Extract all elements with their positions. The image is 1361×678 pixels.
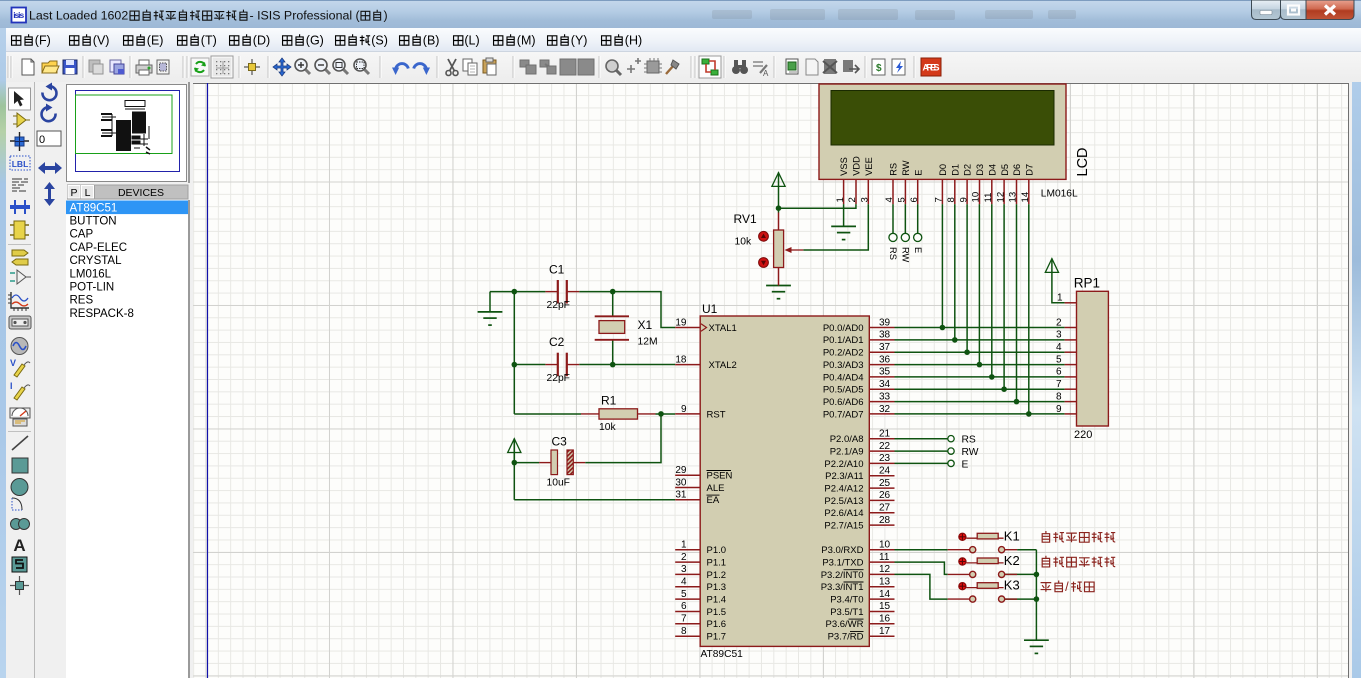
svg-text:RS: RS	[962, 435, 976, 446]
svg-text:R1: R1	[601, 394, 617, 408]
svg-text:A: A	[763, 69, 769, 78]
svg-text:4: 4	[1056, 342, 1062, 353]
svg-text:E: E	[913, 170, 923, 176]
label LCD reference	[1075, 147, 1091, 176]
svg-text:VDD: VDD	[852, 156, 862, 176]
svg-text:24: 24	[879, 466, 891, 477]
node C2-right/X1 junction	[610, 362, 616, 368]
capacitor C3 10uF electrolytic	[539, 450, 585, 475]
svg-text:11: 11	[983, 193, 994, 203]
wire C1 left to ground stem	[489, 292, 491, 312]
svg-text:P1.4: P1.4	[707, 595, 727, 606]
svg-text:AT89C51: AT89C51	[70, 202, 118, 214]
LCD pin numbers 1-14	[835, 191, 1031, 202]
wire P0.7/AD7 row to RP1 pin9	[895, 413, 1065, 415]
label X1 reference	[638, 318, 653, 332]
button K3	[948, 583, 1017, 603]
lcd display LM016L	[819, 84, 1066, 204]
svg-text:P1.7: P1.7	[707, 632, 727, 643]
wire P0.6/AD6 row to RP1 pin8	[895, 401, 1065, 403]
label K2 reference	[1004, 553, 1020, 568]
svg-text:12M: 12M	[638, 337, 658, 348]
svg-text:21: 21	[879, 429, 891, 440]
svg-text:C2: C2	[549, 335, 565, 349]
svg-text:RS: RS	[888, 247, 898, 260]
wire RST node down to C3 right lead	[585, 414, 661, 463]
svg-text:2: 2	[847, 197, 858, 202]
svg-text:P2.3/A11: P2.3/A11	[825, 471, 863, 482]
svg-text:2: 2	[1056, 317, 1062, 328]
svg-text:1: 1	[835, 197, 846, 202]
wire D5: LCD pin12 down to P0.5 row	[1003, 204, 1005, 389]
svg-text:25: 25	[879, 478, 891, 489]
svg-text:27: 27	[879, 503, 891, 514]
svg-text:(E): (E)	[147, 34, 164, 48]
label K3 reference	[1004, 578, 1020, 593]
power symbol VCC arrow at RP1	[1045, 259, 1058, 273]
node D5/P0.5 junction	[1001, 386, 1007, 392]
wire R1 right to RST pin	[656, 413, 676, 415]
wire LCD E pin to terminal	[917, 204, 919, 233]
power symbol VDD arrow above RV1	[772, 173, 785, 209]
node D2/P0.2 junction	[964, 349, 970, 355]
svg-text:P1.0: P1.0	[707, 545, 727, 556]
svg-text:22: 22	[879, 441, 891, 452]
node D7/P0.7 junction	[1026, 411, 1032, 417]
ground at C1	[478, 312, 503, 325]
ground below RV1	[766, 286, 791, 299]
svg-text:P3.5/T1: P3.5/T1	[830, 607, 863, 618]
svg-text:C3: C3	[552, 435, 568, 449]
svg-text:12: 12	[995, 192, 1006, 203]
svg-text:35: 35	[879, 367, 891, 378]
svg-text:CAP-ELEC: CAP-ELEC	[70, 242, 128, 254]
wire X1 top to C1 net	[612, 292, 614, 317]
ground below buttons	[1024, 640, 1049, 653]
svg-text:8: 8	[1056, 391, 1062, 402]
svg-text:P3.2/INT0: P3.2/INT0	[821, 570, 864, 581]
RP1 pin numbers	[1056, 293, 1063, 415]
svg-text:VEE: VEE	[864, 157, 874, 176]
label U1 value AT89C51	[701, 649, 744, 660]
wire column to C2 left lead	[514, 364, 545, 366]
svg-text:V: V	[10, 358, 16, 368]
label net name RW	[962, 447, 979, 458]
label C2 value 22pF	[547, 373, 570, 384]
U1 left pin numbers	[675, 317, 687, 637]
svg-text:30: 30	[675, 477, 687, 488]
svg-text:P3.4/T0: P3.4/T0	[830, 595, 863, 606]
svg-text:/: /	[1065, 579, 1069, 594]
svg-text:P0.6/AD6: P0.6/AD6	[823, 397, 864, 408]
svg-text:34: 34	[879, 379, 891, 390]
wire P0.5/AD5 row to RP1 pin7	[895, 388, 1065, 390]
node VDD junction	[776, 205, 782, 211]
label net name RS	[962, 435, 976, 446]
svg-text:14: 14	[1020, 191, 1031, 202]
annotation auto horizontal scroll	[1042, 556, 1116, 567]
label R1 value 10k	[599, 422, 616, 433]
svg-text:DEVICES: DEVICES	[118, 187, 164, 199]
svg-text:): )	[384, 9, 388, 23]
svg-text:RW: RW	[901, 160, 911, 176]
svg-text:D3: D3	[975, 164, 985, 176]
mcu U1 AT89C51	[675, 316, 894, 646]
svg-text:1: 1	[1057, 293, 1063, 304]
svg-text:P0.7/AD7: P0.7/AD7	[823, 409, 864, 420]
svg-text:9: 9	[1056, 404, 1062, 415]
wire D3: LCD pin10 down to P0.3 row	[978, 204, 980, 365]
wire D2: LCD pin9 down to P0.2 row	[966, 204, 968, 352]
svg-text:P2.1/A9: P2.1/A9	[830, 446, 864, 457]
svg-text:4: 4	[884, 197, 895, 203]
main toolbar	[0, 52, 1361, 82]
node C3-left junction	[512, 460, 518, 466]
label C3 reference	[552, 435, 568, 449]
menu bar	[0, 28, 1361, 52]
svg-text:P3.1/TXD: P3.1/TXD	[822, 558, 863, 569]
wire P0.2/AD2 row to RP1 pin4	[895, 351, 1065, 353]
wire K1 right contact to common	[1017, 549, 1036, 551]
wire P3.1/TXD to K2 left contact	[895, 562, 948, 574]
label LCD value LM016L	[1041, 189, 1078, 200]
terminal net E	[948, 460, 954, 466]
svg-text:A: A	[13, 536, 25, 555]
svg-text:P0.1/AD1: P0.1/AD1	[823, 335, 864, 346]
node C1-right/X1 junction	[610, 289, 616, 295]
svg-text:K3: K3	[1004, 578, 1020, 593]
wire C1 right to XTAL1	[579, 292, 675, 328]
svg-text:PSEN: PSEN	[707, 471, 733, 482]
terminal net RS	[948, 436, 954, 442]
wire P3.0/RXD to K1 left contact	[895, 549, 948, 551]
wire X1 bottom to C2 net	[612, 340, 614, 365]
label X1 value 12M	[638, 337, 658, 348]
svg-text:L: L	[85, 187, 91, 199]
svg-text:X1: X1	[638, 318, 653, 332]
svg-text:15: 15	[879, 601, 891, 612]
svg-text:10k: 10k	[599, 422, 616, 433]
svg-text:D5: D5	[1000, 164, 1010, 176]
svg-text:P1.5: P1.5	[707, 607, 727, 618]
label K1 reference	[1004, 528, 1020, 543]
svg-text:D2: D2	[963, 164, 973, 176]
label net name E	[962, 459, 969, 470]
svg-text:D7: D7	[1024, 164, 1034, 176]
potentiometer RV1 10k	[759, 213, 804, 286]
resistor R1 10k	[581, 409, 656, 419]
object selector panel	[66, 82, 190, 678]
left mode toolbar	[6, 82, 35, 678]
ground at LCD VSS	[831, 226, 856, 239]
U1 right pin numbers	[879, 317, 891, 637]
wire D7: LCD pin14 down to P0.7 row	[1028, 204, 1030, 414]
svg-text:P1.3: P1.3	[707, 582, 727, 593]
wire K2 right contact to common	[1004, 573, 1037, 575]
svg-text:(Y): (Y)	[571, 34, 588, 48]
node K2 common junction	[1034, 572, 1040, 578]
svg-text:3: 3	[681, 564, 687, 575]
svg-text:8: 8	[946, 197, 957, 202]
capacitor C2 22pF	[545, 353, 579, 377]
wire buttons common down to ground	[1035, 550, 1037, 641]
svg-text:P3.3/INT1: P3.3/INT1	[821, 582, 864, 593]
svg-text:1: 1	[681, 540, 687, 551]
svg-text:POT-LIN: POT-LIN	[70, 282, 115, 294]
power symbol VCC arrow at C3	[508, 439, 521, 463]
svg-text:K2: K2	[1004, 553, 1020, 568]
wire VEE: LCD pin3 to RV1 wiper	[803, 204, 868, 250]
wire net RS from P2.0	[895, 438, 948, 440]
svg-text:(T): (T)	[201, 34, 217, 48]
svg-text:19: 19	[675, 317, 687, 328]
label RP1 reference	[1074, 276, 1100, 291]
svg-text:RES: RES	[70, 295, 94, 307]
svg-text:7: 7	[681, 614, 687, 625]
svg-text:12: 12	[879, 564, 891, 575]
svg-text:RESPACK-8: RESPACK-8	[70, 308, 134, 320]
svg-text:VSS: VSS	[839, 157, 849, 176]
svg-text:ALE: ALE	[707, 483, 725, 494]
wire C3 left lead wire	[514, 462, 539, 464]
label C2 reference	[549, 335, 565, 349]
svg-text:RV1: RV1	[734, 212, 757, 226]
svg-text:LM016L: LM016L	[1041, 189, 1078, 200]
svg-text:10: 10	[971, 192, 982, 203]
capacitor C1 22pF	[545, 280, 579, 304]
node D0/P0.0 junction	[940, 325, 946, 331]
wire feed line C1/C2/R1 column	[513, 292, 515, 414]
svg-text:D4: D4	[987, 164, 997, 176]
wire D4: LCD pin11 down to P0.4 row	[991, 204, 993, 377]
wire net RW from P2.1	[895, 450, 948, 452]
svg-text:26: 26	[879, 490, 891, 501]
svg-text:P2.0/A8: P2.0/A8	[830, 434, 864, 445]
svg-text:33: 33	[879, 391, 891, 402]
svg-text:(L): (L)	[464, 34, 479, 48]
wire to EA pin	[514, 499, 675, 501]
svg-text:(S): (S)	[371, 34, 388, 48]
svg-text:$: $	[876, 63, 882, 74]
svg-text:U1: U1	[702, 302, 718, 316]
svg-text:5: 5	[897, 197, 908, 202]
rotated terminal labels RS RW E	[888, 247, 923, 263]
wire D0: LCD pin7 down to P0.0 row	[941, 204, 943, 327]
node D6/P0.6 junction	[1014, 399, 1020, 405]
label R1 reference	[601, 394, 617, 408]
svg-text:isis: isis	[13, 10, 24, 20]
terminal net RW	[948, 448, 954, 454]
wire column to R1 left lead	[514, 413, 581, 415]
svg-text:D0: D0	[938, 164, 948, 176]
svg-text:32: 32	[879, 404, 891, 415]
wire D1: LCD pin8 down to P0.1 row	[954, 204, 956, 340]
svg-text:P1.2: P1.2	[707, 570, 727, 581]
svg-text:P1.1: P1.1	[707, 558, 727, 569]
svg-text:3: 3	[860, 197, 871, 202]
svg-text:2: 2	[681, 552, 687, 563]
svg-text:P0.3/AD3: P0.3/AD3	[823, 360, 864, 371]
svg-text:36: 36	[879, 354, 891, 365]
svg-text:BUTTON: BUTTON	[70, 216, 117, 228]
svg-text:P3.7/RD: P3.7/RD	[828, 632, 864, 643]
svg-text:P2.4/A12: P2.4/A12	[824, 484, 863, 495]
svg-text:C1: C1	[549, 263, 565, 277]
svg-text:P2.6/A14: P2.6/A14	[824, 508, 863, 519]
svg-text:LCD: LCD	[1075, 147, 1091, 176]
wire P0.1/AD1 row to RP1 pin3	[895, 339, 1065, 341]
svg-text:(V): (V)	[93, 34, 110, 48]
wire LCD RW pin to terminal	[904, 204, 906, 233]
svg-text:7: 7	[934, 197, 945, 202]
node D4/P0.4 junction	[989, 374, 995, 380]
svg-text:10: 10	[879, 540, 891, 551]
svg-text:28: 28	[879, 515, 891, 526]
wire VSS: LCD pin1 to ground	[843, 204, 845, 226]
node C2-left junction	[512, 362, 518, 368]
svg-text:220: 220	[1074, 429, 1092, 441]
wire P3.2/INT0 to K3 left contact	[895, 574, 948, 599]
svg-text:P1.6: P1.6	[707, 619, 727, 630]
svg-text:23: 23	[879, 453, 891, 464]
svg-text:22pF: 22pF	[547, 373, 570, 384]
wire C2 right to XTAL2	[579, 364, 675, 366]
svg-text:5: 5	[681, 589, 687, 600]
svg-text:D6: D6	[1012, 164, 1022, 176]
left window border	[0, 28, 6, 678]
wire LCD RS pin to terminal	[892, 204, 894, 233]
schematic edit canvas with grid	[193, 83, 1349, 678]
svg-text:RP1: RP1	[1074, 276, 1100, 291]
resistor pack RP1 220	[1065, 291, 1109, 426]
svg-text:(G): (G)	[306, 34, 324, 48]
svg-text:8: 8	[681, 626, 687, 637]
wire P0.0/AD0 row to RP1 pin2	[895, 327, 1065, 329]
svg-text:13: 13	[879, 577, 891, 588]
svg-text:22pF: 22pF	[547, 300, 570, 311]
svg-text:9: 9	[958, 197, 969, 202]
window title bar	[0, 0, 1361, 28]
svg-text:5: 5	[1056, 354, 1062, 365]
label RV1 reference	[734, 212, 757, 226]
label RP1 value 220	[1074, 429, 1092, 441]
svg-text:11: 11	[879, 552, 890, 563]
svg-text:RST: RST	[707, 409, 726, 420]
svg-text:17: 17	[879, 626, 891, 637]
terminal RW under LCD	[901, 233, 909, 241]
svg-text:P0.2/AD2: P0.2/AD2	[823, 348, 864, 359]
terminal RS under LCD	[889, 233, 897, 241]
node D3/P0.3 junction	[977, 362, 983, 368]
wire D6: LCD pin13 down to P0.6 row	[1016, 204, 1018, 402]
svg-text:I: I	[10, 381, 13, 391]
svg-text:9: 9	[681, 404, 687, 415]
svg-text:P0.0/AD0: P0.0/AD0	[823, 323, 864, 334]
node C1-left junction	[512, 289, 518, 295]
svg-text:RW: RW	[901, 247, 911, 263]
annotation pause/continue	[1041, 579, 1095, 594]
svg-text:E: E	[962, 459, 969, 470]
svg-text:- ISIS Professional (: - ISIS Professional (	[250, 9, 361, 23]
svg-text:10uF: 10uF	[547, 478, 570, 489]
label U1 reference	[702, 302, 718, 316]
sheet border line	[207, 83, 209, 678]
svg-text:P: P	[70, 187, 77, 199]
svg-text:6: 6	[909, 197, 920, 202]
svg-text:D1: D1	[950, 164, 960, 176]
wire P0.4/AD4 row to RP1 pin6	[895, 376, 1065, 378]
crystal X1 12M	[595, 316, 629, 340]
wire power via C3-left down	[513, 439, 515, 500]
svg-text:P2.2/A10: P2.2/A10	[824, 459, 863, 470]
svg-text:EA: EA	[707, 495, 720, 506]
svg-text:K1: K1	[1004, 528, 1020, 543]
svg-text:RW: RW	[962, 447, 979, 458]
rotate controls column	[36, 82, 66, 678]
svg-text:P3.0/RXD: P3.0/RXD	[821, 545, 863, 556]
annotation auto vertical scroll	[1042, 531, 1116, 542]
svg-text:CAP: CAP	[70, 229, 94, 241]
svg-text:CRYSTAL: CRYSTAL	[70, 255, 123, 267]
svg-text:(B): (B)	[423, 34, 440, 48]
node RST junction	[658, 411, 664, 417]
svg-text:E: E	[913, 247, 923, 253]
svg-text:13: 13	[1008, 192, 1019, 203]
label C1 reference	[549, 263, 565, 277]
button K1	[948, 533, 1017, 553]
svg-text:P2.7/A15: P2.7/A15	[824, 521, 863, 532]
svg-text:P3.6/WR: P3.6/WR	[825, 619, 863, 630]
svg-text:16: 16	[879, 614, 891, 625]
svg-text:14: 14	[879, 589, 891, 600]
svg-text:39: 39	[879, 317, 891, 328]
wire ground row to C1 left lead	[490, 291, 545, 293]
svg-text:10k: 10k	[735, 237, 752, 248]
devices list	[66, 200, 188, 678]
wire VDD: LCD pin2 to power rail	[779, 204, 856, 208]
svg-text:(H): (H)	[625, 34, 642, 48]
svg-text:LBL: LBL	[12, 159, 29, 169]
svg-text:Last Loaded 1602: Last Loaded 1602	[29, 9, 128, 23]
button K2	[948, 558, 1017, 578]
svg-text:ARES: ARES	[923, 63, 940, 73]
svg-text:4: 4	[681, 577, 687, 588]
wire P0.3/AD3 row to RP1 pin5	[895, 364, 1065, 366]
svg-text:6: 6	[681, 601, 687, 612]
svg-text:29: 29	[675, 465, 687, 476]
svg-text:7: 7	[1056, 379, 1062, 390]
wire net E from P2.2	[895, 462, 948, 464]
svg-text:(M): (M)	[517, 34, 536, 48]
svg-text:37: 37	[879, 342, 891, 353]
svg-text:31: 31	[675, 490, 687, 501]
svg-text:0: 0	[39, 134, 45, 146]
svg-text:3: 3	[1056, 330, 1062, 341]
svg-text:XTAL1: XTAL1	[709, 323, 737, 334]
svg-text:LM016L: LM016L	[70, 268, 112, 280]
right window border	[1352, 82, 1361, 678]
svg-text:38: 38	[879, 330, 891, 341]
svg-text:P0.4/AD4: P0.4/AD4	[823, 372, 864, 383]
svg-text:P0.5/AD5: P0.5/AD5	[823, 385, 864, 396]
svg-text:18: 18	[675, 354, 687, 365]
node D1/P0.1 junction	[952, 337, 958, 343]
wire K3 right contact to common	[1004, 598, 1037, 600]
svg-text:(F): (F)	[35, 34, 51, 48]
svg-text:6: 6	[1056, 367, 1062, 378]
svg-text:RS: RS	[889, 163, 899, 176]
svg-text:XTAL2: XTAL2	[709, 360, 737, 371]
